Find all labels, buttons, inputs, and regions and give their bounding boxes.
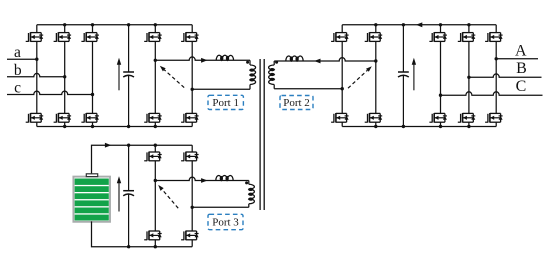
mosfet Q9 (H1 left bottom) bbox=[144, 113, 162, 123]
inductor L1 (port1 series) bbox=[216, 55, 233, 60]
svg-text:c: c bbox=[14, 80, 21, 97]
node: phase B to leg2 bbox=[467, 76, 470, 79]
node: bottom rail leg3 bbox=[91, 125, 94, 128]
svg-text:C: C bbox=[516, 78, 527, 95]
wire: right converter bottom DC rail bbox=[342, 126, 496, 128]
mosfet Q20 (right inverter leg3 bottom) bbox=[485, 113, 503, 123]
node: port3 bottom rail cap bbox=[127, 245, 130, 248]
node: bottom rail leg2 bbox=[63, 125, 66, 128]
node: top rail leg2 bbox=[63, 23, 66, 26]
inductor L2 (port2 series) bbox=[286, 56, 303, 61]
wire: port3 upper lead bbox=[155, 177, 249, 180]
wire: port3 winding top lead down bbox=[248, 181, 250, 185]
wire: left converter bottom DC rail bbox=[37, 126, 192, 128]
mosfet Q12 (H2 right top) bbox=[365, 32, 383, 42]
current arrow: battery output bbox=[105, 143, 111, 148]
wire: H2 right leg bbox=[375, 25, 377, 33]
inductor L3 (port3 series) bbox=[216, 176, 233, 181]
wire: port1 winding top lead down bbox=[249, 60, 251, 65]
battery BT1 bbox=[73, 174, 110, 222]
wire: H1 right leg bbox=[191, 25, 193, 33]
node: port3 top rail H3 left leg bbox=[154, 144, 157, 147]
node: bottom rail H1 left leg bbox=[154, 125, 157, 128]
node: phase A to leg3 bbox=[495, 57, 498, 60]
node: H3 left leg midpoint bbox=[154, 179, 157, 182]
svg-text:A: A bbox=[515, 43, 527, 60]
node: top rail R1 bbox=[439, 23, 442, 26]
mosfet Q13 (H2 left bottom) bbox=[331, 113, 349, 123]
transformer core right bar bbox=[263, 59, 265, 210]
port2 label box bbox=[280, 96, 313, 110]
node: bottom rail dc-link cap right bbox=[402, 125, 405, 128]
wire: port1 winding bottom lead bbox=[249, 85, 251, 90]
dashed arrow: H2 switching bbox=[348, 66, 372, 88]
polarity dot W2 bbox=[275, 61, 278, 64]
wire: H1 left leg bbox=[154, 25, 156, 33]
polarity dot W3 bbox=[245, 181, 248, 184]
mosfet Q1 (left rectifier leg1 top) bbox=[26, 32, 44, 42]
wire: phase B output bbox=[469, 74, 542, 77]
node: H3 right leg midpoint bbox=[191, 206, 194, 209]
mosfet Q6 (left rectifier leg3 bottom) bbox=[81, 113, 99, 123]
wire: left rectifier leg 3 bbox=[92, 25, 94, 33]
mosfet Q24 (H3 right bottom) bbox=[181, 231, 199, 241]
node: top rail dc-link cap left bbox=[127, 23, 130, 26]
svg-text:a: a bbox=[14, 44, 21, 61]
wire: battery negative to port3 bottom rail bbox=[92, 221, 193, 246]
voltage arrow: right dc link bbox=[412, 58, 416, 91]
wire: right inverter leg 2 bbox=[468, 25, 470, 33]
node: phase C to leg1 bbox=[439, 94, 442, 97]
wire: phase c input bbox=[7, 91, 93, 94]
node: top rail H1 left leg bbox=[154, 23, 157, 26]
current arrow: port2 bbox=[314, 59, 320, 64]
mosfet Q22 (H3 right top) bbox=[181, 152, 199, 162]
node: H2 right leg midpoint bbox=[374, 59, 377, 62]
wire: H2 left leg bbox=[341, 25, 343, 33]
svg-text:b: b bbox=[14, 62, 22, 79]
svg-text:Port 2: Port 2 bbox=[283, 97, 310, 109]
wire: left rectifier leg 2 bbox=[64, 25, 66, 33]
mosfet Q10 (H1 right bottom) bbox=[181, 113, 199, 123]
wire: port1 upper lead bbox=[155, 57, 250, 60]
wire: phase A output bbox=[496, 58, 538, 60]
wire: left converter top DC rail bbox=[37, 24, 192, 26]
node: bottom rail R1 bbox=[439, 125, 442, 128]
capacitor C2 (right dc link) bbox=[398, 25, 409, 127]
node: top rail dc-link cap right bbox=[402, 23, 405, 26]
mosfet Q8 (H1 right top) bbox=[181, 32, 199, 42]
mosfet Q21 (H3 left top) bbox=[144, 152, 162, 162]
wire: H3 right leg bbox=[191, 145, 193, 152]
node: phase c to leg3 bbox=[91, 93, 94, 96]
mosfet Q4 (left rectifier leg1 bottom) bbox=[26, 113, 44, 123]
node: phase a to leg1 bbox=[35, 58, 38, 61]
transformer winding W2 (port2) bbox=[269, 65, 275, 84]
port1 label box bbox=[208, 95, 243, 109]
port3 label box bbox=[208, 214, 243, 229]
svg-text:B: B bbox=[516, 60, 527, 77]
node: H1 right leg midpoint bbox=[191, 88, 194, 91]
mosfet Q15 (right inverter leg1 top) bbox=[429, 32, 447, 42]
current arrow: port1 bbox=[201, 58, 207, 63]
node: H2 left leg midpoint bbox=[341, 87, 344, 90]
mosfet Q23 (H3 left bottom) bbox=[144, 231, 162, 241]
mosfet Q17 (right inverter leg3 top) bbox=[485, 32, 503, 42]
wire: right inverter leg 1 bbox=[440, 25, 442, 33]
transformer winding W1 (port1) bbox=[250, 65, 256, 84]
node: H1 left leg midpoint bbox=[154, 59, 157, 62]
wire: port2 winding top lead bbox=[273, 61, 275, 65]
current arrow: port3 bbox=[201, 178, 207, 183]
polarity dot W1 bbox=[246, 61, 249, 64]
node: bottom rail H2 right leg bbox=[374, 125, 377, 128]
node: top rail H2 right leg bbox=[374, 23, 377, 26]
mosfet Q7 (H1 left top) bbox=[144, 32, 162, 42]
wire: left rectifier leg 1 bbox=[36, 25, 38, 33]
wire: phase C output bbox=[441, 92, 543, 95]
wire: right converter top DC rail bbox=[342, 24, 496, 26]
mosfet Q19 (right inverter leg2 bottom) bbox=[458, 113, 476, 123]
transformer winding W3 (port3) bbox=[249, 184, 255, 203]
svg-text:Port 3: Port 3 bbox=[212, 217, 239, 229]
capacitor C1 (left dc link) bbox=[123, 25, 134, 127]
wire: port3 winding bottom lead bbox=[248, 204, 250, 208]
node: top rail R2 bbox=[467, 23, 470, 26]
transformer core left bar bbox=[259, 59, 261, 210]
wire: H3 left leg bbox=[154, 145, 156, 152]
dashed arrow: H3 switching bbox=[158, 185, 178, 208]
dashed arrow: H1 switching bbox=[160, 66, 184, 88]
node: top rail leg3 bbox=[91, 23, 94, 26]
mosfet Q11 (H2 left top) bbox=[331, 32, 349, 42]
node: bottom rail dc-link cap left bbox=[127, 125, 130, 128]
svg-text:Port 1: Port 1 bbox=[212, 97, 239, 109]
capacitor C3 (port3 dc link) bbox=[123, 145, 134, 247]
mosfet Q16 (right inverter leg2 top) bbox=[458, 32, 476, 42]
wire: phase a input bbox=[7, 58, 37, 60]
mosfet Q5 (left rectifier leg2 bottom) bbox=[54, 113, 72, 123]
node: port3 top rail cap bbox=[127, 144, 130, 147]
mosfet Q2 (left rectifier leg2 top) bbox=[54, 32, 72, 42]
mosfet Q14 (H2 right bottom) bbox=[365, 113, 383, 123]
mosfet Q18 (right inverter leg1 bottom) bbox=[429, 113, 447, 123]
node: port3 bottom rail H3 left leg bbox=[154, 245, 157, 248]
wire: right inverter leg 3 bbox=[495, 25, 497, 33]
voltage arrow: port3 dc link bbox=[117, 176, 121, 211]
node: phase b to leg2 bbox=[63, 75, 66, 78]
mosfet Q3 (left rectifier leg3 top) bbox=[81, 32, 99, 42]
voltage arrow: left dc link bbox=[117, 58, 121, 91]
node: bottom rail R2 bbox=[467, 125, 470, 128]
current arrow: top rail right bbox=[416, 22, 422, 27]
wire: battery positive to port3 top rail bbox=[92, 145, 193, 173]
wire: port2 winding bottom lead bbox=[273, 85, 275, 89]
wire: phase b input bbox=[7, 73, 65, 76]
